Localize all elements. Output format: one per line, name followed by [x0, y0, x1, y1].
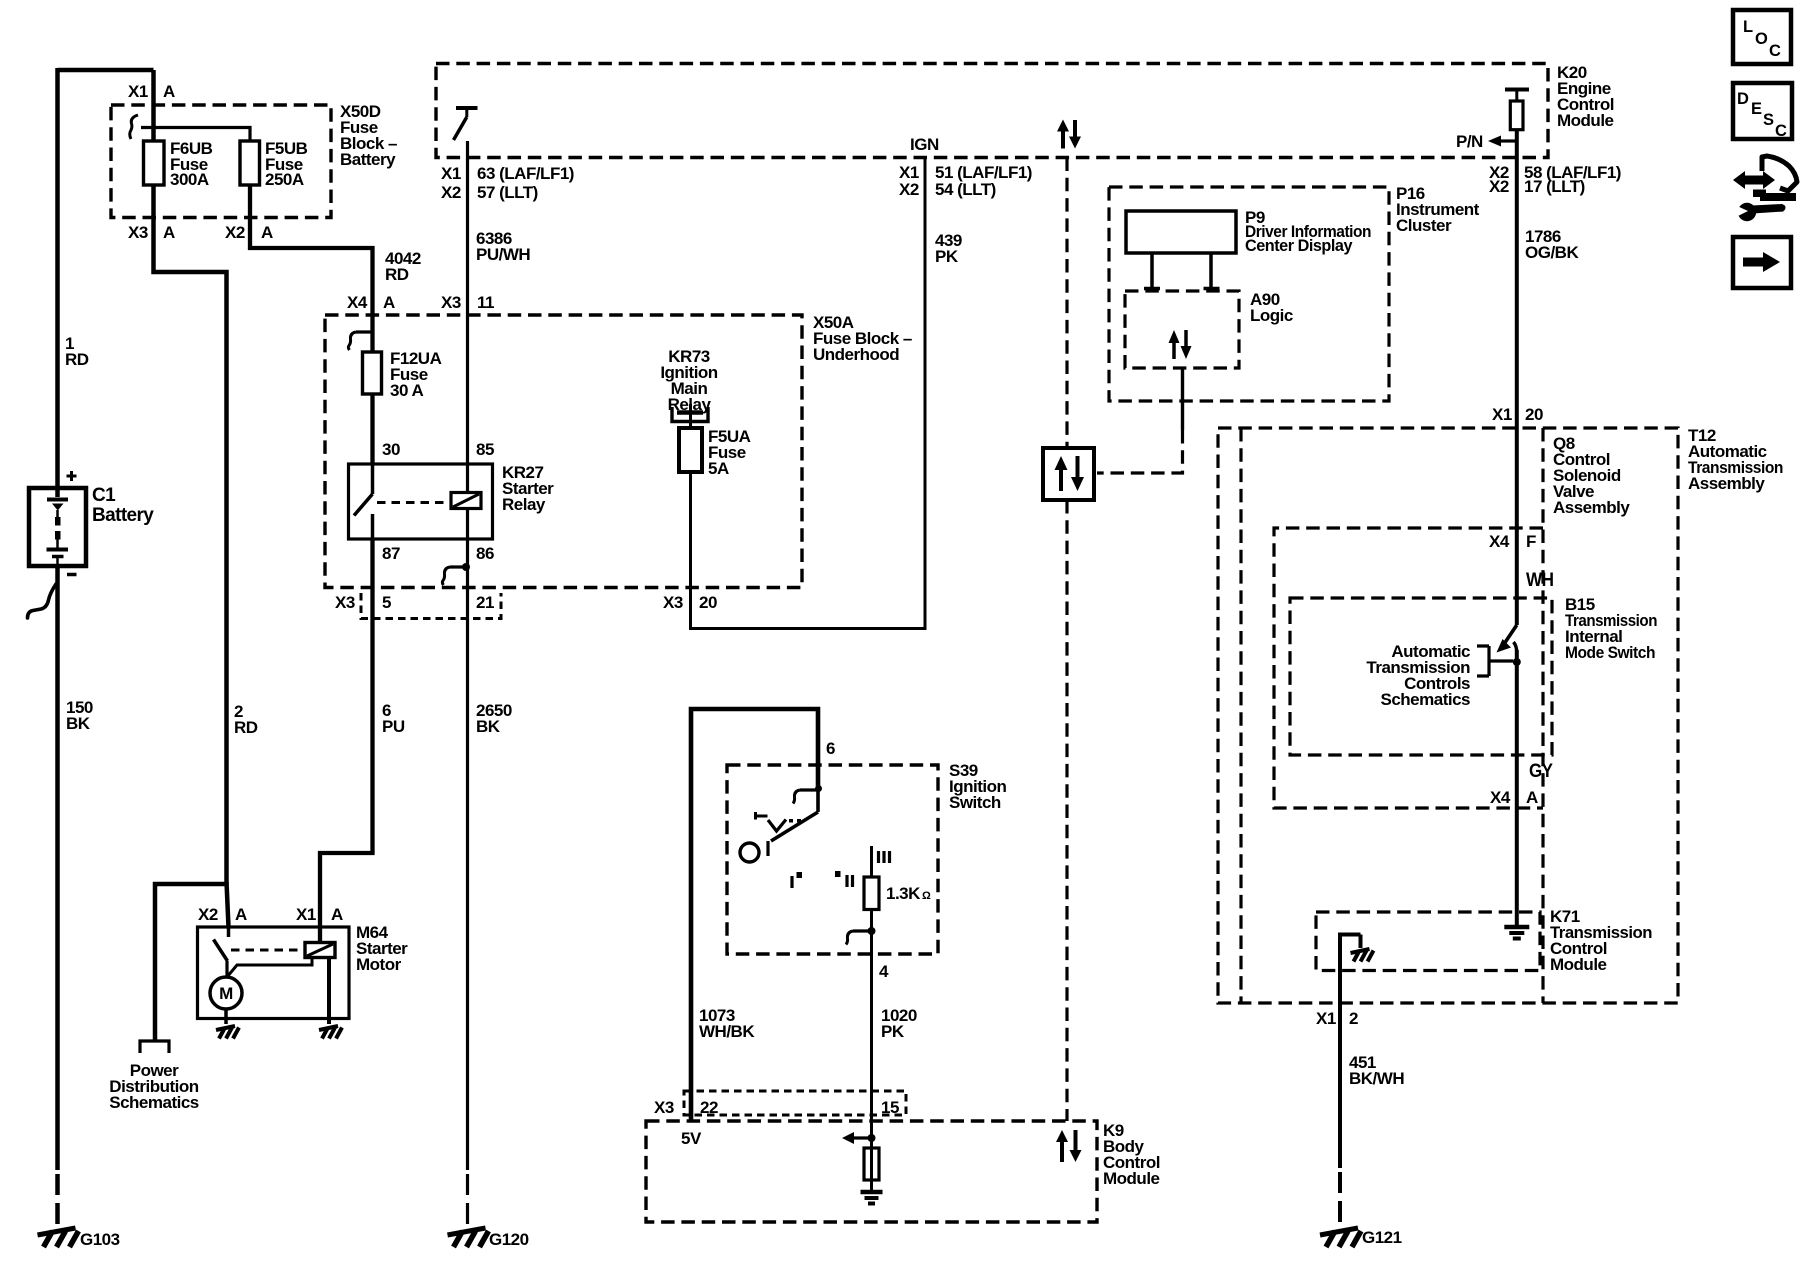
fuse F5UA 5A	[679, 428, 702, 472]
label DESC letters	[1737, 90, 1787, 140]
wire 1020 PK	[870, 910, 873, 1191]
label 1786 OG/BK	[1525, 227, 1579, 262]
label 150 BK	[66, 698, 93, 733]
ignition switch blade	[768, 791, 818, 856]
icon LOC box	[1733, 10, 1791, 64]
svg-text:Motor: Motor	[356, 955, 402, 974]
TCM internal ground for IMS	[1504, 927, 1529, 939]
node P/N with arrow	[1488, 136, 1517, 147]
connector on wire 2650 at 86	[442, 563, 470, 585]
svg-text:X3: X3	[663, 593, 683, 612]
svg-text:RD: RD	[234, 718, 258, 737]
svg-text:63 (LAF/LF1): 63 (LAF/LF1)	[477, 164, 574, 183]
relay KR27 box	[349, 464, 493, 539]
label P9 Driver Information Center Display	[1245, 208, 1371, 255]
off-page bracket power distribution	[140, 1041, 169, 1053]
label Automatic Transmission Controls Schematics	[1366, 642, 1470, 709]
svg-text:Switch: Switch	[949, 793, 1001, 812]
label P/N	[1456, 132, 1483, 151]
ignition position I mark	[792, 872, 802, 888]
connector at X1 splice	[130, 115, 138, 139]
label K9 Body Control Module	[1103, 1121, 1160, 1188]
battery minus label	[67, 573, 77, 577]
ground starter motor	[216, 1026, 239, 1039]
starter motor M64 box	[198, 927, 350, 1019]
svg-text:4: 4	[879, 962, 889, 981]
logic A90 dashed box	[1125, 291, 1239, 368]
svg-text:G120: G120	[489, 1230, 529, 1249]
label 6386 PU/WH	[476, 229, 530, 264]
svg-text:85: 85	[476, 440, 494, 459]
label G120	[489, 1230, 529, 1249]
instrument cluster P16 dashed box	[1109, 187, 1389, 401]
svg-text:30 A: 30 A	[390, 381, 424, 400]
node X4 A	[347, 293, 395, 312]
svg-text:300A: 300A	[170, 170, 209, 189]
node 30	[382, 440, 400, 459]
svg-text:Module: Module	[1550, 955, 1607, 974]
label 4042 RD	[385, 249, 421, 284]
node X1 51 X2 54	[899, 163, 1032, 199]
icon DESC box	[1733, 83, 1792, 139]
svg-text:PK: PK	[935, 247, 959, 266]
icon goto arrow box	[1733, 237, 1791, 288]
BCM pull resistor	[864, 1148, 879, 1180]
ground G103	[38, 1228, 79, 1247]
svg-text:2: 2	[1349, 1009, 1358, 1028]
svg-text:X1: X1	[128, 82, 148, 101]
svg-text:20: 20	[1525, 405, 1543, 424]
svg-text:A: A	[163, 223, 175, 242]
connector on wire at S39 pin 6	[793, 785, 822, 804]
serial data arrows at ECM	[1057, 120, 1081, 149]
serial data dashed line lower	[1065, 500, 1068, 1121]
battery plus label	[67, 471, 77, 481]
svg-text:Module: Module	[1557, 111, 1614, 130]
ground starter solenoid	[319, 1026, 342, 1039]
label 1020 PK	[881, 1006, 917, 1041]
label K20 Engine Control Module	[1557, 63, 1614, 130]
fuse F12UA 30A	[363, 352, 382, 394]
node 4	[879, 962, 889, 981]
label F5UB Fuse 250A	[265, 139, 308, 189]
svg-text:E: E	[1751, 100, 1762, 118]
node X4 F	[1489, 532, 1536, 551]
label 2 RD	[234, 702, 258, 737]
wire S39 feed 1073 WH/BK	[691, 709, 818, 1121]
svg-text:C: C	[1775, 122, 1787, 140]
wire 2 RD from X3 down and right	[154, 185, 227, 884]
svg-text:M: M	[219, 984, 233, 1003]
node 15	[881, 1098, 899, 1117]
svg-text:Relay: Relay	[502, 495, 546, 514]
svg-text:BK: BK	[476, 717, 501, 736]
wire 2 RD branch to power distribution	[155, 884, 227, 1040]
svg-text:A: A	[163, 82, 175, 101]
label G121	[1362, 1228, 1402, 1247]
label M	[219, 984, 233, 1003]
node X1 63 X2 57	[441, 164, 574, 202]
wire 451 dashed to ground	[1338, 1172, 1342, 1226]
node X4 A	[1490, 788, 1538, 807]
B15 switch blade with arrow	[1497, 625, 1517, 653]
svg-text:X1: X1	[296, 905, 316, 924]
svg-text:22: 22	[700, 1098, 718, 1117]
relay KR27 switch	[354, 464, 373, 539]
svg-text:BK: BK	[66, 714, 91, 733]
node X2 A	[225, 223, 273, 242]
wire F12UA to relay 30	[370, 394, 374, 464]
svg-text:20: 20	[699, 593, 717, 612]
svg-text:WH: WH	[1526, 570, 1554, 591]
svg-text:Logic: Logic	[1250, 306, 1293, 325]
wire 1 RD battery feed	[55, 68, 60, 497]
wire 2650 BK dashed to ground	[466, 1174, 469, 1226]
TCM K71 dashed box	[1316, 912, 1540, 971]
svg-text:P/N: P/N	[1456, 132, 1483, 151]
svg-text:250A: 250A	[265, 170, 304, 189]
wire 439 PK to ECM IGN	[691, 158, 926, 629]
label K71 Transmission Control Module	[1550, 907, 1652, 974]
node X3 11	[441, 293, 494, 312]
label KR73 Ignition Main Relay	[660, 347, 717, 414]
label Power Distribution Schematics	[109, 1061, 199, 1112]
label 6 PU	[382, 701, 405, 736]
relay KR27 coil	[451, 493, 481, 509]
fuse F5UB 250A	[240, 141, 260, 185]
label 2650 BK	[476, 701, 512, 736]
ignition position II mark	[835, 871, 853, 887]
svg-text:X3: X3	[441, 293, 461, 312]
wire A90 serial link solid	[1181, 368, 1184, 430]
inner dashed box in Q8	[1274, 528, 1543, 808]
wire P9 legs to A90	[1144, 253, 1220, 289]
off-page bracket transmission controls	[1477, 646, 1513, 676]
wire branch to F5UB	[141, 128, 250, 142]
label F12UA Fuse 30 A	[390, 349, 442, 400]
svg-text:D: D	[1737, 90, 1749, 108]
wire 4042 RD from X2	[250, 185, 373, 352]
svg-text:X2: X2	[225, 223, 245, 242]
ECM driver symbol for 6386	[454, 108, 478, 140]
BCM K9 dashed box	[646, 1121, 1097, 1222]
wire solenoid output to motor	[227, 958, 312, 978]
svg-text:A: A	[383, 293, 395, 312]
svg-text:IGN: IGN	[910, 135, 939, 154]
svg-text:PK: PK	[881, 1022, 905, 1041]
starter solenoid coil	[305, 943, 335, 958]
ignition switch S39 dashed box	[727, 765, 938, 954]
svg-text:F: F	[1526, 532, 1536, 551]
svg-text:OG/BK: OG/BK	[1525, 243, 1579, 262]
TCM ground wire elbow	[1338, 935, 1361, 971]
battery C1	[29, 488, 86, 566]
ground G120	[448, 1228, 489, 1247]
ignition switch contact circle	[740, 843, 759, 862]
svg-text:GY: GY	[1529, 761, 1553, 782]
wire A90 serial link dashed	[1097, 430, 1183, 473]
svg-text:17 (LLT): 17 (LLT)	[1524, 177, 1585, 196]
connector X3 dashed box pins 5 21	[361, 593, 501, 619]
label KR27 Starter Relay	[502, 463, 554, 514]
node X1 2	[1316, 1009, 1358, 1028]
wire GY mode switch to ground	[1515, 650, 1519, 925]
svg-text:X3: X3	[335, 593, 355, 612]
svg-text:5: 5	[382, 593, 391, 612]
node X1 20	[1492, 405, 1543, 424]
label X50A Fuse Block Underhood	[813, 313, 912, 364]
svg-text:15: 15	[881, 1098, 899, 1117]
svg-text:Schematics: Schematics	[1381, 690, 1471, 709]
label A90 Logic	[1250, 290, 1293, 325]
svg-text:Cluster: Cluster	[1396, 216, 1452, 235]
ECM internal pullup resistor	[1505, 90, 1529, 130]
svg-text:6: 6	[826, 739, 835, 758]
label P16 Instrument Cluster	[1396, 184, 1480, 235]
node X3 20	[663, 593, 717, 612]
node X1 A starter	[296, 905, 343, 924]
svg-text:Assembly: Assembly	[1553, 498, 1630, 517]
node X3 5	[335, 593, 391, 612]
node IGN	[910, 135, 939, 154]
svg-text:Battery: Battery	[340, 150, 396, 169]
svg-text:Schematics: Schematics	[109, 1093, 199, 1112]
svg-text:Module: Module	[1103, 1169, 1160, 1188]
wire KR73 to fuse F5UA	[689, 404, 692, 428]
svg-text:G121: G121	[1362, 1228, 1402, 1247]
svg-text:30: 30	[382, 440, 400, 459]
svg-text:Underhood: Underhood	[813, 345, 899, 364]
node 21	[476, 593, 494, 612]
ignition position III mark	[879, 851, 890, 863]
svg-text:54 (LLT): 54 (LLT)	[935, 180, 996, 199]
label 6 ignition switch pin	[826, 739, 835, 758]
label F5UA Fuse 5A	[708, 427, 751, 478]
relay KR73 coil symbol	[672, 407, 708, 422]
wire 2650 BK relay 86 to ground	[466, 509, 469, 1171]
svg-text:X4: X4	[347, 293, 368, 312]
label X50D Fuse Block Battery	[340, 102, 397, 169]
wire III to resistor	[870, 846, 873, 877]
A90 serial arrows	[1169, 330, 1192, 359]
relay KR27 mechanical link	[377, 501, 449, 504]
svg-text:BK/WH: BK/WH	[1349, 1069, 1404, 1088]
label 439 PK	[935, 231, 962, 266]
svg-text:G103: G103	[80, 1230, 120, 1249]
node 86	[476, 544, 494, 563]
label F6UB Fuse 300A	[170, 139, 213, 189]
label 1073 WH/BK	[699, 1006, 755, 1041]
svg-text:X1: X1	[441, 164, 461, 183]
label 1.3K ohm	[886, 884, 931, 903]
svg-text:PU: PU	[382, 717, 405, 736]
wire 150 BK dashed to ground	[55, 1174, 60, 1226]
label WH	[1526, 570, 1554, 591]
connector on wire 150 BK below battery	[28, 584, 57, 618]
svg-text:O: O	[1755, 30, 1768, 48]
svg-text:X2: X2	[1489, 177, 1509, 196]
node X3 22	[654, 1098, 718, 1117]
svg-text:A: A	[261, 223, 273, 242]
serial data arrows box	[1043, 448, 1094, 500]
solenoid assembly Q8 dashed box	[1241, 428, 1543, 1003]
svg-text:A: A	[331, 905, 343, 924]
svg-text:RD: RD	[385, 265, 409, 284]
wire 6 PU relay 87 to starter	[320, 539, 373, 943]
wire 2 RD diagonal into starter X2	[227, 882, 229, 927]
svg-text:87: 87	[382, 544, 400, 563]
svg-text:C1: C1	[92, 485, 116, 506]
node 87	[382, 544, 400, 563]
fuse block X50D dashed box	[111, 105, 331, 218]
display P9 box	[1126, 211, 1236, 253]
label B15 Transmission Internal Mode Switch	[1565, 595, 1657, 662]
node X1 A	[128, 82, 175, 101]
wire 150 BK	[55, 566, 60, 1170]
svg-text:RD: RD	[65, 350, 89, 369]
label S39 Ignition Switch	[949, 761, 1006, 812]
ground TCM internal	[1351, 949, 1374, 962]
ignition switch detent V mark	[756, 812, 802, 831]
svg-text:S: S	[1763, 111, 1774, 129]
svg-text:5A: 5A	[708, 459, 729, 478]
label G103	[80, 1230, 120, 1249]
mode switch B15 dashed box	[1290, 598, 1552, 755]
svg-text:C: C	[1769, 42, 1781, 60]
wire battery positive top	[58, 68, 154, 73]
svg-text:Battery: Battery	[92, 505, 154, 526]
motor M	[210, 977, 242, 1009]
label T12 Automatic Transmission Assembly	[1688, 426, 1783, 493]
fuse block X50A dashed box	[325, 315, 802, 588]
label GY	[1529, 761, 1553, 782]
svg-text:Ω: Ω	[922, 890, 931, 902]
starter switch blade	[214, 927, 229, 977]
svg-text:L: L	[1743, 18, 1753, 36]
svg-text:X2: X2	[198, 905, 218, 924]
svg-text:57 (LLT): 57 (LLT)	[477, 183, 538, 202]
node X2 A starter	[198, 905, 247, 924]
svg-text:X1: X1	[1316, 1009, 1336, 1028]
node 85	[476, 440, 494, 459]
BCM serial arrows	[1056, 1130, 1082, 1162]
label C1 Battery	[92, 485, 154, 526]
svg-text:5V: 5V	[681, 1129, 702, 1148]
label 451 BK/WH	[1349, 1053, 1404, 1088]
svg-text:Assembly: Assembly	[1688, 474, 1765, 493]
fuse F6UB 300A	[144, 141, 165, 185]
wire 1786 OG/BK	[1515, 130, 1519, 625]
svg-text:A: A	[235, 905, 247, 924]
svg-text:1.3K: 1.3K	[886, 884, 921, 903]
node X2 58 X2 17	[1489, 163, 1621, 196]
node X3 A	[128, 223, 175, 242]
ECM K20 dashed box	[436, 64, 1548, 158]
wire X1 to fuse F6UB	[151, 70, 156, 141]
svg-text:A: A	[1526, 788, 1538, 807]
svg-text:Center Display: Center Display	[1245, 236, 1353, 255]
svg-text:X2: X2	[441, 183, 461, 202]
wire solenoid to ground	[327, 958, 331, 1025]
svg-text:WH/BK: WH/BK	[699, 1022, 755, 1041]
BCM internal arrow left	[842, 1132, 876, 1144]
svg-text:Mode Switch: Mode Switch	[1565, 643, 1655, 662]
wire motor to ground	[224, 1009, 228, 1024]
label 5V	[681, 1129, 702, 1148]
svg-text:X4: X4	[1489, 532, 1510, 551]
label LOC letters	[1743, 18, 1781, 60]
wire 6386 PU WH from ECM to relay 85	[466, 141, 469, 493]
BCM internal ground	[861, 1192, 883, 1204]
connector on wire 1020	[846, 927, 876, 945]
transmission T12 dashed box	[1218, 428, 1678, 1003]
svg-text:11: 11	[477, 293, 494, 312]
icon wrench	[1736, 203, 1786, 221]
resistor 1.3K ohm	[864, 877, 879, 910]
connector on wire at F12UA	[348, 332, 372, 350]
label M64 Starter Motor	[356, 923, 408, 974]
svg-text:X3: X3	[128, 223, 148, 242]
label Q8 Control Solenoid Valve Assembly	[1553, 434, 1630, 517]
wire 451 BK/WH	[1338, 971, 1342, 1169]
label 1 RD	[65, 334, 89, 369]
svg-text:21: 21	[476, 593, 494, 612]
starter mechanical link dashed	[231, 949, 303, 952]
connector X3 dashed box pins 22 15	[684, 1091, 906, 1115]
svg-text:PU/WH: PU/WH	[476, 245, 530, 264]
icon harness arrow	[1733, 156, 1797, 201]
svg-text:X1: X1	[1492, 405, 1512, 424]
serial data dashed line upper	[1065, 158, 1068, 449]
svg-text:X4: X4	[1490, 788, 1511, 807]
ground G121	[1320, 1228, 1361, 1247]
svg-text:86: 86	[476, 544, 494, 563]
svg-text:X2: X2	[899, 180, 919, 199]
B15 common node dot	[1513, 658, 1521, 666]
svg-text:X3: X3	[654, 1098, 674, 1117]
